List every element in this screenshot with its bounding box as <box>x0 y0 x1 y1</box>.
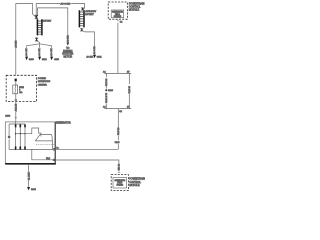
generator internal: stator link <box>25 128 41 136</box>
inline connector top bar <box>104 72 131 74</box>
svg-text:G101: G101 <box>97 57 103 59</box>
generator internal: entry bus <box>9 122 25 149</box>
svg-text:F145 18 W: F145 18 W <box>106 93 108 103</box>
PDC exit connector <box>15 94 17 101</box>
generator internal: stator bus <box>16 133 25 135</box>
svg-text:POWER: POWER <box>38 78 47 80</box>
generator internal: output bus <box>9 148 53 150</box>
svg-text:MODULE: MODULE <box>129 183 139 187</box>
svg-text:BATTERY: BATTERY <box>85 13 94 16</box>
generator internal: stator winding dome <box>35 134 52 141</box>
svg-text:GENERATOR: GENERATOR <box>56 121 71 125</box>
auxiliary battery negative clip <box>80 28 83 32</box>
svg-text:A0 4 BK: A0 4 BK <box>25 48 28 56</box>
svg-text:G109: G109 <box>54 59 60 61</box>
wire stubs to grounds <box>27 55 52 58</box>
wire right branch <box>128 73 130 108</box>
battery negative clip <box>35 37 38 41</box>
svg-text:A0 4 BK: A0 4 BK <box>38 48 41 56</box>
svg-text:BATTERY: BATTERY <box>43 20 52 23</box>
wire bus C: battery positive to starter feed <box>38 8 68 36</box>
ground G101 <box>38 57 41 61</box>
svg-text:A142 12: A142 12 <box>15 103 18 111</box>
svg-text:G100: G100 <box>29 59 35 61</box>
battery B1 <box>37 19 42 35</box>
generator internal: rectifier diodes top <box>15 124 17 127</box>
svg-text:F145 18: F145 18 <box>129 85 131 93</box>
powertrain control module (bottom) <box>111 175 128 191</box>
terminal FLD <box>53 159 55 161</box>
terminal B+ <box>53 149 55 151</box>
label TO ENGINE STARTER MOTOR <box>62 46 73 59</box>
arrow to starter motor <box>67 43 70 46</box>
svg-text:A0 4 BK: A0 4 BK <box>50 48 53 56</box>
inline connector bottom bar <box>104 108 131 110</box>
generator ground wire <box>28 164 30 187</box>
generator internal: dashed reference line <box>36 143 55 145</box>
svg-text:A0 8RD: A0 8RD <box>15 40 18 48</box>
svg-text:C2: C2 <box>119 111 123 113</box>
svg-text:G101: G101 <box>42 59 48 61</box>
ground G109 <box>50 57 53 61</box>
svg-text:C100: C100 <box>5 115 11 117</box>
powertrain control module (top) <box>108 2 127 19</box>
wire bus B: battery positive to auxiliary battery <box>36 4 84 17</box>
svg-text:MOTOR: MOTOR <box>64 55 73 59</box>
PCM generator field source block <box>111 10 124 18</box>
wire bus A: battery positive to left feed <box>16 4 36 76</box>
svg-text:30A: 30A <box>19 91 23 94</box>
svg-text:DRIVER: DRIVER <box>117 185 124 187</box>
generator internal: phase wires <box>16 127 25 146</box>
svg-text:F145: F145 <box>115 142 121 144</box>
auxiliary battery <box>79 10 84 27</box>
svg-text:CENTER: CENTER <box>38 84 47 86</box>
PCM connector C2 bottom <box>118 171 120 174</box>
svg-text:A0 4BK: A0 4BK <box>86 56 93 59</box>
PCM generator field driver block <box>113 177 127 188</box>
PDC entry terminal <box>15 79 17 82</box>
svg-text:MODULE: MODULE <box>129 8 139 12</box>
power distribution center <box>6 75 36 101</box>
battery B1 positive clip <box>35 15 38 20</box>
ground G100 <box>25 57 28 61</box>
svg-text:Z1 12BK: Z1 12BK <box>28 172 30 180</box>
svg-text:S126: S126 <box>108 90 114 92</box>
svg-text:A0 4 BK: A0 4 BK <box>93 46 96 54</box>
svg-text:F145 18: F145 18 <box>118 127 120 135</box>
fuse F5 <box>13 85 18 94</box>
splice S126 <box>105 89 107 91</box>
wire left branch <box>105 73 107 108</box>
svg-text:A0 8RD: A0 8RD <box>67 35 70 43</box>
wire from connector to field line <box>117 109 119 150</box>
svg-text:AUXILIARY: AUXILIARY <box>85 10 97 13</box>
svg-text:G104: G104 <box>31 189 37 191</box>
ground G104 <box>27 187 30 190</box>
wire battery negative to ground splice <box>27 41 52 48</box>
wire to fuse <box>15 81 17 85</box>
svg-text:A0 8 RD: A0 8 RD <box>60 2 71 5</box>
svg-text:SOURCE: SOURCE <box>114 16 122 18</box>
PCM connector C1 <box>117 19 119 22</box>
svg-text:DISTRIBUTION: DISTRIBUTION <box>38 81 51 83</box>
generator internal: rectifier diodes bottom <box>15 146 17 149</box>
wire generator FLD to PCM driver <box>56 160 119 172</box>
generator internal: capacitor symbol <box>8 136 10 137</box>
svg-text:A4: A4 <box>103 106 106 109</box>
wire PDC to generator <box>15 102 17 122</box>
ground G101 aux <box>93 55 96 58</box>
auxiliary battery positive clip <box>81 7 84 10</box>
wire PCM to splice connector <box>117 23 119 74</box>
generator box <box>5 122 55 164</box>
wire generator B+ to field network <box>56 148 118 150</box>
svg-text:C1: C1 <box>120 21 124 23</box>
wire aux battery negative to ground <box>82 31 94 55</box>
svg-text:K20 18: K20 18 <box>119 163 121 170</box>
svg-text:F145 18: F145 18 <box>106 78 108 86</box>
generator internal: field winding <box>32 149 53 159</box>
svg-text:FLD: FLD <box>46 158 50 160</box>
